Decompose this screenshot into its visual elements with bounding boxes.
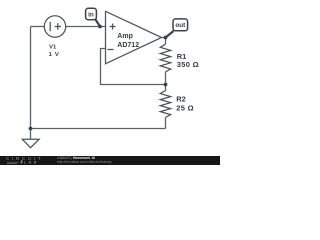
svg-text:25 Ω: 25 Ω (176, 104, 194, 113)
svg-text:LAB: LAB (24, 160, 39, 165)
svg-text:V1: V1 (49, 45, 57, 51)
svg-text:http://circuitlab.com/c/6ku4m5: http://circuitlab.com/c/6ku4m5oshaiy (57, 160, 112, 164)
svg-text:AD712: AD712 (117, 42, 139, 49)
svg-text:350 Ω: 350 Ω (177, 60, 199, 69)
svg-text:out: out (175, 22, 186, 29)
svg-text:R2: R2 (176, 95, 186, 104)
svg-text:Amp: Amp (117, 33, 133, 40)
svg-text:1 V: 1 V (49, 52, 60, 58)
svg-text:in: in (88, 11, 94, 18)
